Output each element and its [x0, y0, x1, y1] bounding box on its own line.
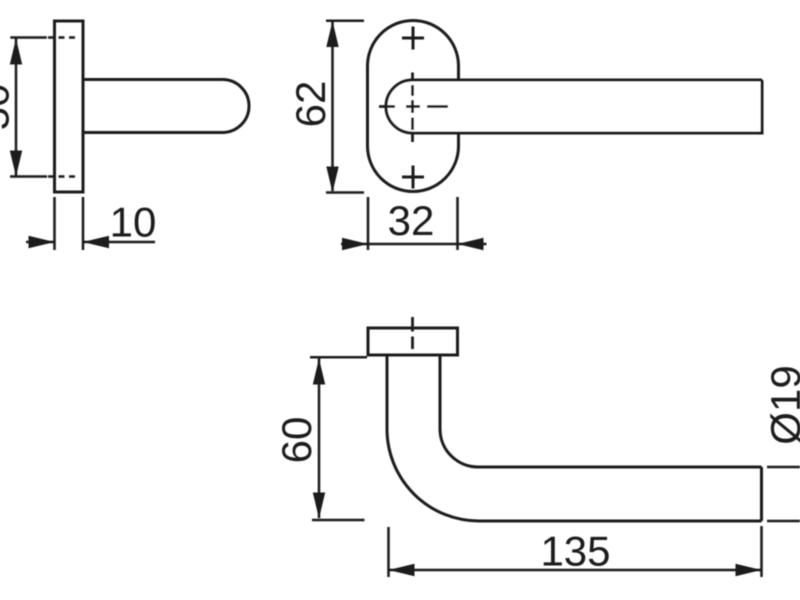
- spindle centerline dashes (figure 3): [411, 317, 414, 349]
- dimension 32 extension lines (figure 2): [368, 197, 458, 250]
- svg-text:32: 32: [388, 197, 435, 244]
- dimension 135 arrow left: [389, 564, 415, 576]
- dimension 10 extension lines (figure 1): [55, 197, 84, 250]
- dimension 135 extension lines (figure 3): [389, 526, 762, 577]
- dimension 60 extension lines (figure 3): [310, 357, 367, 520]
- dimension 32 arrow right: [458, 238, 484, 250]
- center mark horizontal dashes (figure 2): [379, 105, 448, 108]
- svg-text:60: 60: [273, 417, 320, 464]
- screw cross top (figure 2): [402, 27, 424, 50]
- dimension 135 line: [390, 569, 761, 572]
- svg-text:Ø19: Ø19: [762, 365, 800, 444]
- screw hole centerline top (figure 1): [48, 36, 78, 39]
- dimension 62 arrow up: [326, 21, 338, 47]
- rosette top profile collar (figure 3): [368, 328, 458, 355]
- dimension 32 arrow left: [342, 238, 368, 250]
- dimension 60 line: [318, 359, 321, 519]
- screw hole centerline bottom (figure 1): [48, 175, 78, 178]
- dimension 50 arrow up: [10, 39, 22, 65]
- dimension diameter 19 extension lines (figure 3): [767, 467, 800, 521]
- dimension 60 arrow down: [313, 493, 325, 519]
- dimension 10 line: [26, 241, 155, 244]
- lever front view (figure 2): [386, 80, 762, 133]
- dimension 32 line: [341, 243, 487, 246]
- dimension 50 arrow down: [10, 151, 22, 177]
- screw cross bottom (figure 2): [402, 166, 424, 189]
- lever top view (figure 3): [387, 355, 762, 521]
- dimension 50 line: [15, 39, 18, 177]
- oval rosette (figure 2): [368, 21, 459, 192]
- dimension 50 extension lines (figure 1): [10, 38, 47, 177]
- svg-text:10: 10: [110, 199, 157, 246]
- dimension 62 extension lines (figure 2): [326, 21, 364, 193]
- dimension 10 arrow right: [83, 236, 109, 248]
- dimension 62 arrow down: [326, 167, 338, 193]
- svg-text:50: 50: [0, 84, 18, 131]
- svg-text:62: 62: [287, 81, 334, 128]
- center mark vertical dashes (figure 2): [411, 73, 414, 143]
- dimension 62 line: [331, 22, 334, 191]
- dimension 135 arrow right: [736, 564, 762, 576]
- lever grip side view (figure 1): [83, 80, 249, 133]
- rosette side profile (figure 1): [55, 21, 84, 192]
- dimension 10 arrow left: [29, 236, 55, 248]
- dimension 60 arrow up: [313, 359, 325, 385]
- svg-text:135: 135: [540, 528, 610, 575]
